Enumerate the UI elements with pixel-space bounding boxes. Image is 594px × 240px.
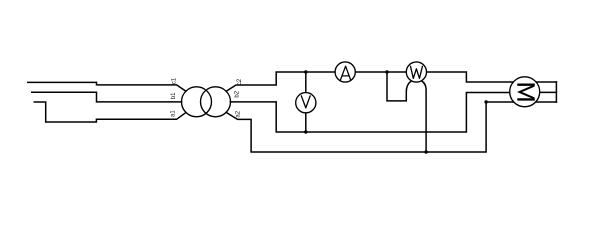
transformer T1 primary winding circle	[182, 87, 212, 117]
motor letter M rotated: bottom bar	[517, 98, 535, 100]
wire top bus between ammeter and wattmeter	[355, 71, 406, 73]
junction node voltmeter top	[304, 70, 307, 73]
wire phase a2 transformer to bottom bus to motor	[226, 102, 513, 152]
motor stator short link middle	[540, 91, 557, 93]
wire phase c2 transformer to top bus	[226, 72, 335, 91]
wire phase C source left	[28, 82, 186, 91]
wire wattmeter voltage coil right lead	[422, 81, 427, 152]
ammeter letter A	[340, 66, 351, 80]
junction node wattmeter voltage tap	[385, 70, 388, 73]
voltmeter V circle	[296, 93, 316, 113]
svg-text:c1: c1	[171, 77, 177, 84]
wire voltmeter branch bottom	[305, 113, 307, 132]
svg-text:b2: b2	[235, 90, 241, 97]
motor letter M rotated: top bar	[517, 83, 535, 85]
motor stator short link bottom	[536, 101, 557, 103]
wire phase B source left	[32, 92, 182, 102]
wattmeter letter W	[411, 66, 423, 78]
wire phase A source left	[34, 102, 186, 122]
wire phase b2 transformer to motor via lower bus	[230, 93, 509, 133]
motor M circle	[510, 77, 540, 107]
svg-text:a2: a2	[235, 110, 241, 117]
ammeter A circle	[335, 62, 355, 82]
svg-text:c2: c2	[237, 78, 243, 85]
voltmeter letter V	[301, 96, 310, 108]
junction node voltmeter bottom	[304, 130, 307, 133]
motor letter M rotated: chevron	[520, 86, 535, 99]
transformer T1 secondary winding circle	[201, 87, 231, 117]
wire voltmeter branch top	[305, 72, 307, 93]
wire wattmeter voltage coil left lead	[387, 72, 411, 101]
svg-text:a1: a1	[171, 110, 177, 117]
motor stator short link vertical	[555, 82, 557, 102]
motor stator short link top	[536, 81, 556, 83]
junction node phase a2 corner	[484, 100, 487, 103]
svg-text:b1: b1	[171, 92, 177, 99]
wire top bus from wattmeter to motor	[426, 72, 513, 82]
wattmeter W circle	[406, 62, 426, 82]
junction node wattmeter lead on bottom bus	[424, 150, 427, 153]
